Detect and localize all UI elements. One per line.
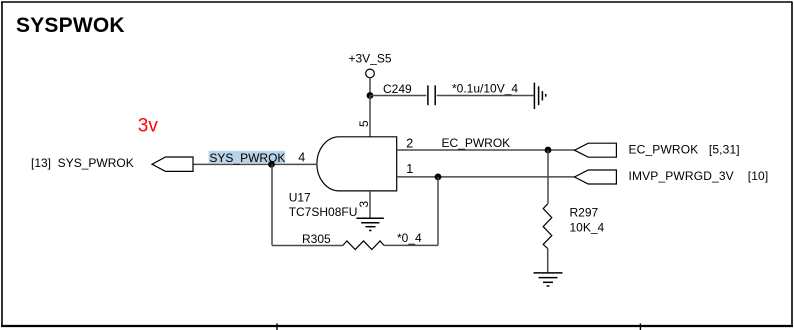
value label 0.1u/10V_4 — [452, 81, 518, 95]
svg-text:[13] SYS_PWROK: [13] SYS_PWROK — [31, 156, 134, 170]
off-page connector EC_PWROK [5,31] — [575, 143, 740, 158]
wire to R305 — [272, 245, 343, 247]
node EC_PWROK junction — [545, 147, 552, 154]
border tick 2 — [639, 323, 641, 330]
svg-text:5: 5 — [357, 120, 371, 127]
svg-text:+3V_S5: +3V_S5 — [349, 51, 392, 65]
wire cap right — [437, 95, 534, 97]
svg-text:SYSPWOK: SYSPWOK — [16, 14, 125, 37]
svg-text:3v: 3v — [138, 116, 159, 137]
pin 3 label — [357, 201, 371, 208]
annotation 3v (red) — [138, 116, 159, 137]
svg-text:C249: C249 — [383, 82, 412, 96]
wire SYS_PWROK down (left leg of R305 path) — [271, 164, 273, 245]
off-page connector IMVP_PWRGD_3V [10] — [575, 169, 769, 184]
capacitor C249 — [383, 82, 435, 105]
wire pin5 vertical — [369, 96, 371, 138]
pin 1 label — [406, 162, 413, 176]
svg-text:R305: R305 — [302, 232, 331, 246]
ground (sideways, cap C249) — [534, 83, 545, 109]
border frame top — [1, 1, 793, 3]
net label SYS_PWROK (highlighted) — [209, 151, 286, 165]
pin 2 label — [406, 136, 413, 150]
border frame bottom — [1, 325, 793, 327]
pin 4 label — [298, 150, 305, 164]
net EC_PWROK label — [442, 136, 511, 150]
svg-text:IMVP_PWRGD_3V [10]: IMVP_PWRGD_3V [10] — [629, 169, 769, 183]
wire pin4 input — [193, 163, 316, 165]
border frame right — [791, 2, 793, 327]
svg-text:*0.1u/10V_4: *0.1u/10V_4 — [452, 81, 518, 95]
wire R305 to right leg — [384, 244, 438, 246]
pin 5 label — [357, 120, 371, 127]
title SYSPWOK — [16, 14, 125, 37]
ground (pin 3) — [356, 218, 384, 230]
wire pin3 vertical — [369, 191, 371, 218]
svg-text:EC_PWROK [5,31]: EC_PWROK [5,31] — [629, 143, 740, 157]
svg-text:2: 2 — [406, 136, 413, 150]
wire cap left — [370, 95, 426, 97]
AND gate U17 (TC7SH08FU) — [289, 137, 397, 219]
svg-text:3: 3 — [357, 201, 371, 208]
node pin1 junction — [435, 174, 442, 181]
off-page connector [13] SYS_PWROK — [31, 156, 193, 171]
value label *0_4 — [397, 231, 422, 245]
wire pin2 output EC_PWROK — [397, 149, 575, 151]
border frame left — [1, 2, 3, 327]
svg-text:R297: R297 — [570, 205, 599, 219]
node SYS_PWROK junction — [268, 161, 275, 168]
wire right leg up to pin1 node — [437, 177, 439, 246]
resistor R305 — [302, 232, 384, 250]
wire R297 to ground — [547, 249, 549, 273]
svg-text:1: 1 — [406, 162, 413, 176]
wire EC_PWROK down to R297 — [547, 150, 549, 204]
svg-text:10K_4: 10K_4 — [570, 221, 605, 235]
ground (R297) — [534, 273, 563, 286]
border tick 1 — [276, 323, 278, 330]
svg-text:TC7SH08FU: TC7SH08FU — [289, 205, 358, 219]
svg-text:*0_4: *0_4 — [397, 231, 422, 245]
svg-text:4: 4 — [298, 150, 305, 164]
svg-text:EC_PWROK: EC_PWROK — [442, 136, 511, 150]
wire pin1 input — [397, 176, 575, 178]
resistor R297 — [543, 204, 604, 249]
svg-text:U17: U17 — [289, 191, 311, 205]
power symbol +3V_S5 — [349, 51, 392, 77]
node power junction — [367, 92, 374, 99]
wire power stub — [369, 78, 371, 96]
